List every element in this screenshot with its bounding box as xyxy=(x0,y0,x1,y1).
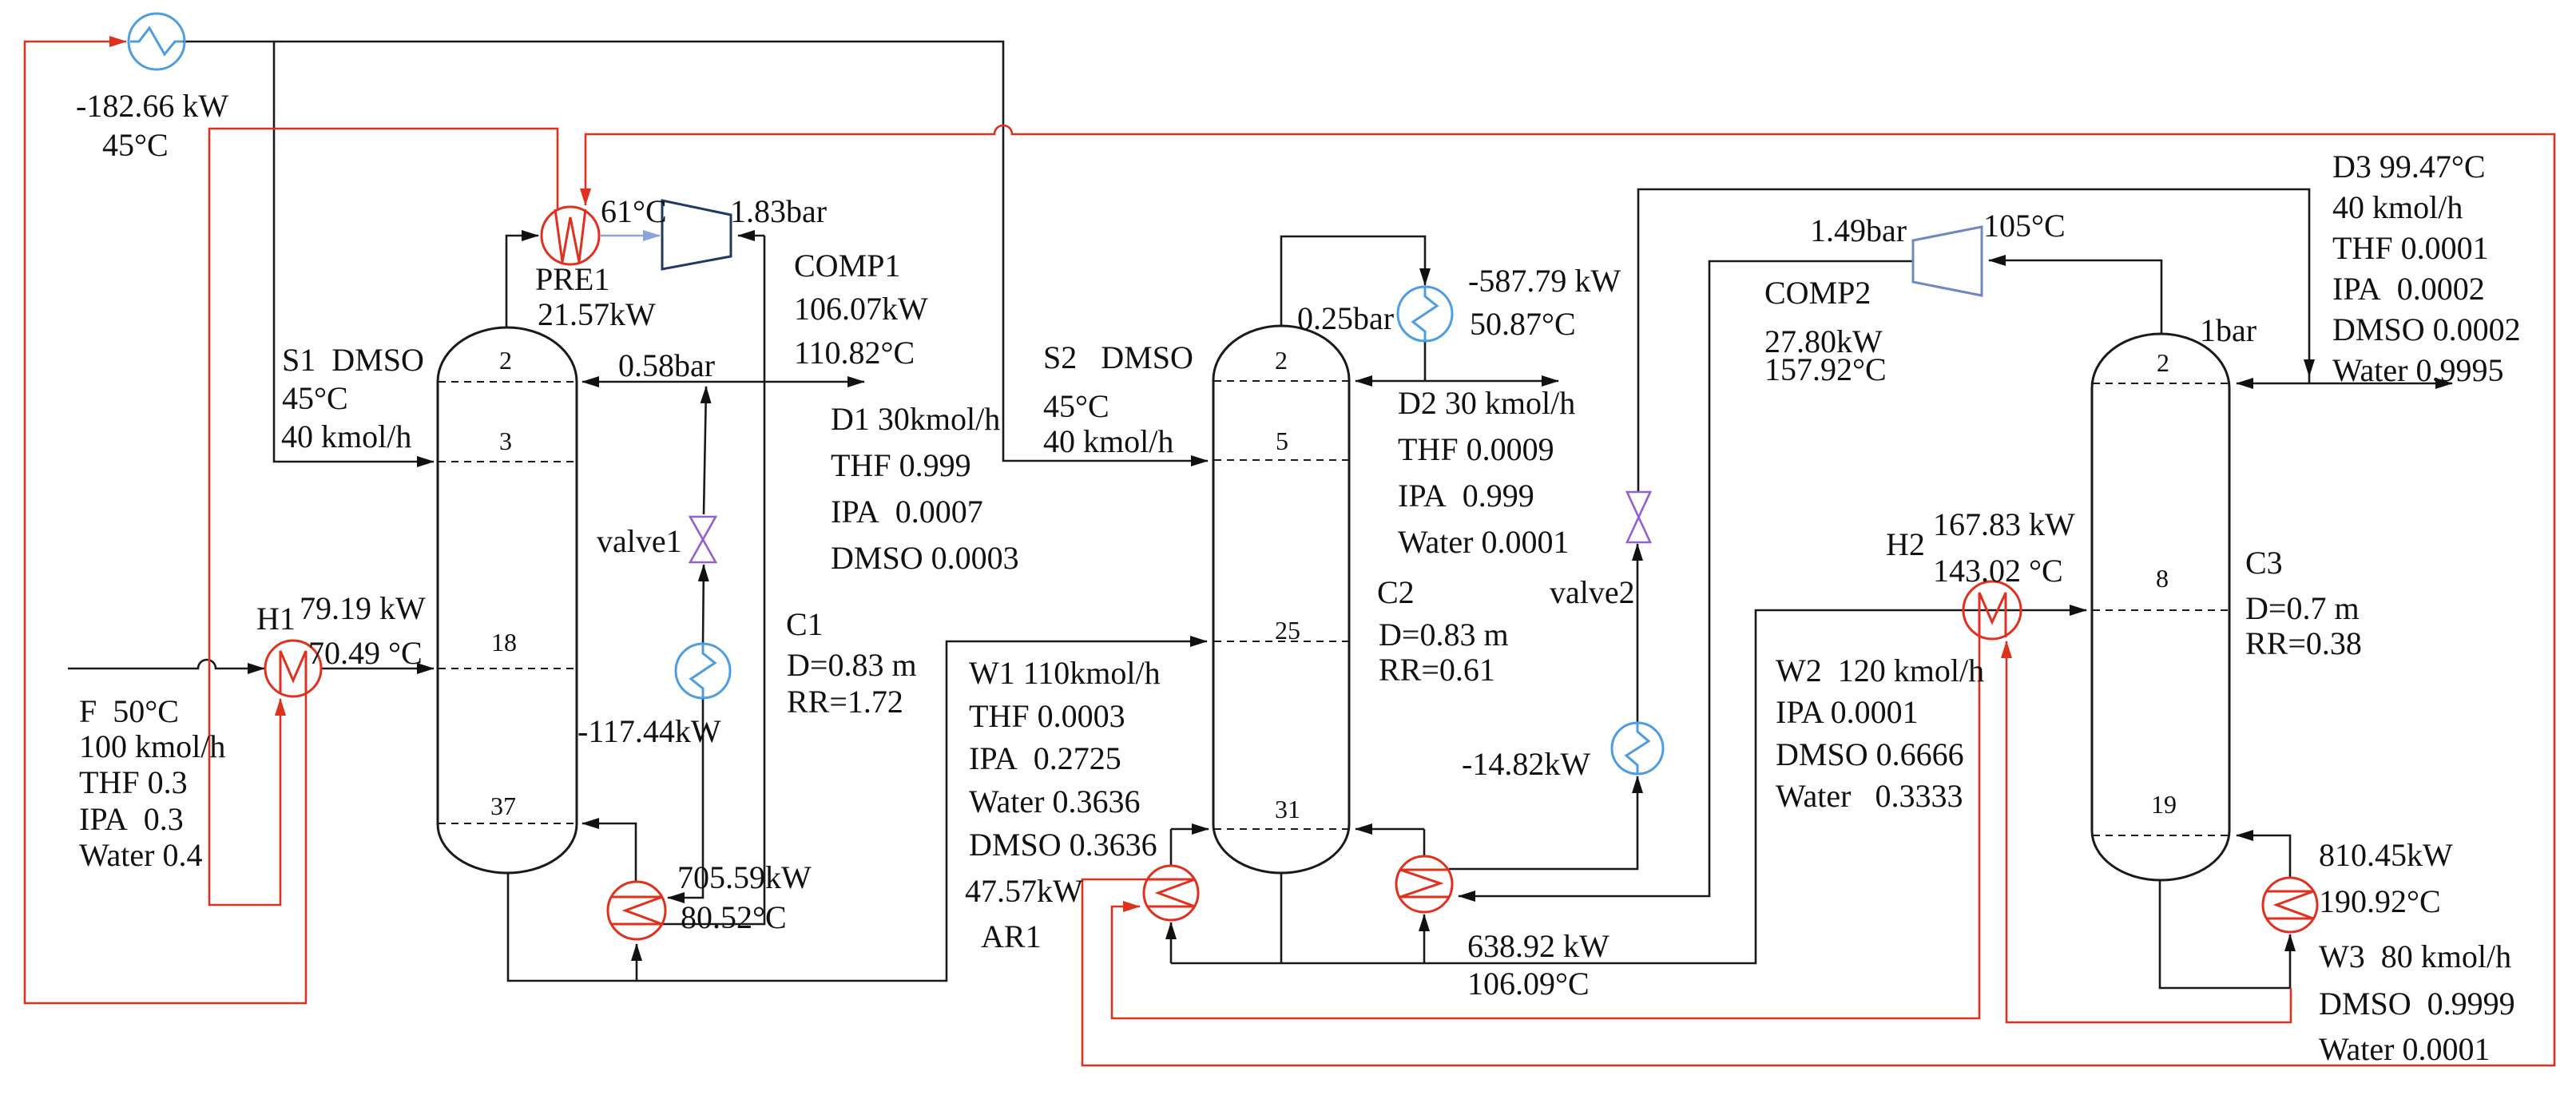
svg-text:DMSO 0.6666: DMSO 0.6666 xyxy=(1776,736,1964,772)
svg-text:W1 110kmol/h: W1 110kmol/h xyxy=(969,655,1161,691)
svg-text:45°C: 45°C xyxy=(1043,388,1109,424)
svg-text:Water 0.4: Water 0.4 xyxy=(79,837,203,873)
svg-text:IPA 0.2725: IPA 0.2725 xyxy=(969,740,1121,776)
svg-text:D=0.7 m: D=0.7 m xyxy=(2245,590,2360,626)
svg-text:D1 30kmol/h: D1 30kmol/h xyxy=(831,401,1000,437)
svg-text:RR=1.72: RR=1.72 xyxy=(787,684,903,720)
svg-text:-117.44kW: -117.44kW xyxy=(578,713,721,749)
svg-text:D3 99.47°C: D3 99.47°C xyxy=(2332,149,2486,184)
svg-text:Water 0.3333: Water 0.3333 xyxy=(1776,778,1963,814)
svg-text:RR=0.61: RR=0.61 xyxy=(1379,652,1495,688)
svg-text:DMSO 0.3636: DMSO 0.3636 xyxy=(969,827,1157,863)
svg-text:40 kmol/h: 40 kmol/h xyxy=(2332,189,2463,225)
svg-text:C2: C2 xyxy=(1377,574,1415,610)
svg-text:Water 0.0001: Water 0.0001 xyxy=(2319,1031,2491,1067)
svg-text:COMP2: COMP2 xyxy=(1764,275,1871,311)
svg-text:2: 2 xyxy=(1275,346,1288,375)
svg-text:40 kmol/h: 40 kmol/h xyxy=(1043,423,1173,459)
svg-text:THF 0.999: THF 0.999 xyxy=(831,447,971,483)
svg-text:DMSO 0.0002: DMSO 0.0002 xyxy=(2332,311,2521,347)
svg-text:8: 8 xyxy=(2156,564,2169,593)
svg-text:37: 37 xyxy=(490,791,516,820)
svg-text:S2 DMSO: S2 DMSO xyxy=(1043,339,1193,375)
svg-text:AR1: AR1 xyxy=(981,918,1042,954)
svg-text:705.59kW: 705.59kW xyxy=(677,859,812,895)
svg-text:100 kmol/h: 100 kmol/h xyxy=(79,728,225,764)
svg-text:COMP1: COMP1 xyxy=(794,248,900,284)
svg-text:C3: C3 xyxy=(2245,545,2283,581)
svg-text:IPA 0.0007: IPA 0.0007 xyxy=(831,494,983,530)
svg-text:190.92°C: 190.92°C xyxy=(2319,883,2441,919)
svg-text:61°C: 61°C xyxy=(601,193,667,229)
svg-text:IPA 0.0002: IPA 0.0002 xyxy=(2332,271,2485,307)
svg-text:40 kmol/h: 40 kmol/h xyxy=(281,419,411,454)
svg-text:106.07kW: 106.07kW xyxy=(794,291,928,327)
svg-text:S1 DMSO: S1 DMSO xyxy=(282,342,424,378)
svg-text:21.57kW: 21.57kW xyxy=(538,296,656,332)
svg-text:IPA 0.3: IPA 0.3 xyxy=(79,801,184,837)
svg-text:THF 0.0009: THF 0.0009 xyxy=(1398,431,1554,467)
svg-text:THF 0.0003: THF 0.0003 xyxy=(969,698,1125,734)
svg-text:H1: H1 xyxy=(256,601,296,637)
svg-text:valve2: valve2 xyxy=(1550,574,1635,610)
svg-text:638.92 kW: 638.92 kW xyxy=(1467,928,1610,964)
svg-text:PRE1: PRE1 xyxy=(535,261,609,297)
svg-text:C1: C1 xyxy=(786,606,824,642)
svg-text:0.25bar: 0.25bar xyxy=(1297,300,1394,336)
svg-text:0.58bar: 0.58bar xyxy=(618,347,715,383)
svg-text:D2 30 kmol/h: D2 30 kmol/h xyxy=(1398,385,1575,421)
svg-text:IPA 0.999: IPA 0.999 xyxy=(1398,478,1534,514)
svg-text:70.49 °C: 70.49 °C xyxy=(308,635,423,671)
svg-text:3: 3 xyxy=(499,426,512,455)
svg-text:W3 80 kmol/h: W3 80 kmol/h xyxy=(2319,938,2511,974)
svg-text:80.52°C: 80.52°C xyxy=(681,899,787,935)
svg-text:Water 0.0001: Water 0.0001 xyxy=(1398,524,1570,560)
svg-text:2: 2 xyxy=(2157,348,2169,377)
svg-text:DMSO 0.9999: DMSO 0.9999 xyxy=(2319,986,2515,1022)
svg-text:5: 5 xyxy=(1276,426,1288,455)
svg-text:DMSO 0.0003: DMSO 0.0003 xyxy=(831,540,1019,576)
svg-text:79.19 kW: 79.19 kW xyxy=(300,590,426,626)
svg-text:143.02 °C: 143.02 °C xyxy=(1933,553,2063,589)
svg-text:-182.66 kW: -182.66 kW xyxy=(76,88,228,124)
svg-text:45°C: 45°C xyxy=(282,380,348,416)
svg-text:106.09°C: 106.09°C xyxy=(1467,966,1590,1002)
svg-text:W2 120 kmol/h: W2 120 kmol/h xyxy=(1776,653,1984,688)
svg-text:F 50°C: F 50°C xyxy=(79,693,179,729)
svg-text:valve1: valve1 xyxy=(597,523,682,559)
svg-text:105°C: 105°C xyxy=(1983,208,2066,244)
svg-text:THF 0.0001: THF 0.0001 xyxy=(2332,230,2489,266)
svg-text:H2: H2 xyxy=(1886,526,1925,562)
svg-text:Water 0.3636: Water 0.3636 xyxy=(969,784,1141,819)
svg-text:31: 31 xyxy=(1275,795,1300,823)
svg-text:D=0.83 m: D=0.83 m xyxy=(1379,617,1509,653)
svg-text:47.57kW: 47.57kW xyxy=(965,873,1083,909)
svg-text:-14.82kW: -14.82kW xyxy=(1462,746,1590,782)
svg-text:1.83bar: 1.83bar xyxy=(730,193,827,229)
svg-text:D=0.83 m: D=0.83 m xyxy=(787,647,917,683)
svg-text:157.92°C: 157.92°C xyxy=(1764,351,1887,387)
svg-text:IPA 0.0001: IPA 0.0001 xyxy=(1776,694,1919,730)
svg-text:1.49bar: 1.49bar xyxy=(1810,212,1907,248)
svg-text:-587.79 kW: -587.79 kW xyxy=(1468,263,1621,299)
svg-text:167.83 kW: 167.83 kW xyxy=(1933,506,2075,542)
svg-text:19: 19 xyxy=(2151,790,2177,819)
svg-text:25: 25 xyxy=(1275,616,1300,645)
svg-text:50.87°C: 50.87°C xyxy=(1470,306,1576,342)
svg-text:18: 18 xyxy=(491,628,517,657)
svg-text:RR=0.38: RR=0.38 xyxy=(2245,625,2362,661)
svg-text:Water 0.9995: Water 0.9995 xyxy=(2332,352,2504,388)
svg-text:1bar: 1bar xyxy=(2200,312,2256,348)
svg-text:2: 2 xyxy=(499,346,512,375)
svg-text:45°C: 45°C xyxy=(102,127,169,163)
svg-text:110.82°C: 110.82°C xyxy=(794,335,915,371)
svg-text:THF 0.3: THF 0.3 xyxy=(79,764,188,800)
svg-text:810.45kW: 810.45kW xyxy=(2319,837,2453,873)
